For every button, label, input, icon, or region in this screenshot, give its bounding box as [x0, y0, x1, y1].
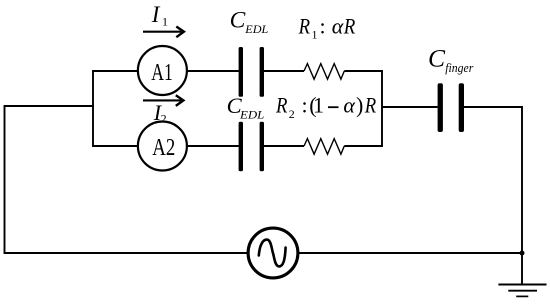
svg-text:R: R [343, 15, 356, 39]
AC source [248, 228, 298, 278]
svg-text:2: 2 [289, 107, 295, 121]
label C_EDL bottom [227, 93, 265, 122]
svg-text:1: 1 [313, 93, 324, 118]
svg-text:EDL: EDL [239, 110, 264, 122]
svg-text:EDL: EDL [244, 24, 268, 36]
svg-text:A2: A2 [152, 134, 175, 161]
svg-text:2: 2 [161, 112, 167, 126]
junction node [520, 251, 525, 256]
wire mid-left horizontal [4, 105, 94, 107]
label R1 : alpha R [298, 14, 356, 42]
wire top branch: stub to A1 [92, 70, 137, 72]
wire top branch: A1 to C_EDL [188, 70, 239, 72]
label R2 : (1-alpha)R [275, 93, 377, 122]
svg-text:I: I [151, 2, 161, 27]
wire top branch: C_EDL to R1 [264, 70, 304, 72]
wire top branch: R1 to right stub [344, 70, 383, 72]
svg-text:C: C [230, 7, 246, 33]
svg-text:R: R [275, 94, 288, 118]
label I2 [153, 100, 167, 126]
label C_EDL top [230, 7, 269, 36]
label I1 [151, 2, 168, 29]
capacitor C_finger plates [438, 83, 464, 132]
svg-text:α: α [343, 93, 355, 118]
wire bottom horizontal: right segment [299, 252, 523, 254]
wire mid-right horizontal: C_finger to right corner [464, 106, 523, 108]
svg-text::: : [302, 93, 308, 118]
svg-text::: : [320, 14, 326, 39]
svg-text:R: R [298, 15, 311, 39]
svg-text:α: α [332, 14, 344, 39]
current arrow I1 [143, 27, 184, 38]
current arrow I2 [143, 95, 183, 106]
ground [498, 253, 546, 296]
svg-text:C: C [428, 44, 446, 73]
svg-text:1: 1 [162, 15, 168, 29]
svg-text:A1: A1 [151, 59, 173, 86]
wire right vertical [521, 106, 523, 253]
svg-text:finger: finger [445, 60, 474, 75]
resistor R2 zigzag [304, 139, 344, 155]
svg-text:): ) [356, 93, 363, 118]
wire mid-right horizontal: stub to C_finger [382, 106, 438, 108]
wire bottom branch: C_EDL to R2 [264, 145, 304, 147]
wire right stub vertical [381, 70, 383, 147]
resistor R1 zigzag [304, 64, 344, 80]
ammeter A2 [138, 122, 187, 171]
wire bottom branch: stub to A2 [92, 145, 137, 147]
label C_finger [428, 44, 474, 75]
ammeter A1 [138, 46, 187, 95]
wire left vertical [4, 105, 6, 254]
wire left stub vertical [92, 70, 94, 147]
capacitor C_EDL top plates [239, 47, 264, 97]
wire bottom horizontal: left segment [4, 252, 247, 254]
capacitor C_EDL bottom plates [239, 122, 264, 171]
wire bottom branch: A2 to C_EDL [188, 145, 239, 147]
wire bottom branch: R2 to right stub [344, 145, 383, 147]
svg-text:R: R [364, 94, 377, 118]
svg-text:1: 1 [312, 28, 318, 42]
